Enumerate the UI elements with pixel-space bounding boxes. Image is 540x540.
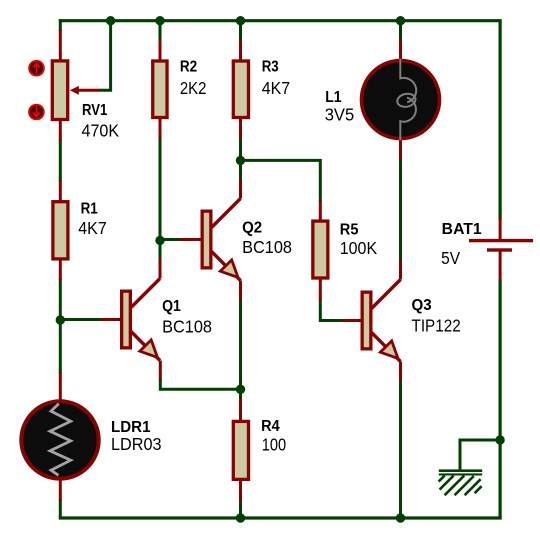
wire Q2 emitter down to emitter node	[239, 299, 242, 391]
svg-text:470K: 470K	[82, 121, 120, 141]
resistor R5	[313, 200, 328, 301]
junction R3 bottom node	[236, 156, 245, 165]
potentiometer RV1	[52, 30, 100, 142]
svg-text:Q3: Q3	[412, 297, 432, 314]
wire R1 bottom through node to LDR1 top	[59, 279, 62, 374]
wire R2 bottom to Q2 base node	[159, 138, 162, 242]
svg-text:R4: R4	[261, 418, 280, 435]
svg-text:Q1: Q1	[162, 298, 181, 315]
wire RV1 wiper to top rail	[100, 19, 111, 90]
wire Q3 emitter to bottom rail	[399, 380, 402, 520]
svg-text:Q2: Q2	[242, 219, 262, 236]
LDR LDR1	[21, 372, 98, 501]
transistor Q2	[180, 179, 241, 301]
wire R5 bottom to Q3 base	[320, 300, 344, 321]
junction top rail at wiper	[106, 16, 115, 25]
svg-text:R3: R3	[262, 59, 279, 76]
wire L1 bottom to Q3 collector	[399, 159, 402, 262]
svg-text:RV1: RV1	[82, 102, 108, 119]
wire R4 bottom to bottom rail	[239, 501, 242, 520]
svg-text:R5: R5	[340, 221, 359, 238]
svg-text:BAT1: BAT1	[442, 221, 482, 238]
wire node to Q1 collector pin	[159, 240, 162, 260]
junction bottom rail at Q3	[396, 513, 405, 522]
junction top rail at R2	[155, 16, 164, 25]
wire Q1 emitter rail to emitter node	[160, 379, 240, 389]
junction Q1 base node	[56, 315, 65, 324]
lamp L1	[362, 39, 440, 161]
wire R3 bottom to collector node	[239, 138, 242, 162]
svg-text:R1: R1	[81, 200, 99, 217]
svg-text:4K7: 4K7	[262, 78, 290, 98]
resistor R2	[153, 40, 167, 139]
junction emitter node	[236, 385, 245, 394]
svg-text:L1: L1	[325, 89, 342, 106]
svg-text:TIP122: TIP122	[412, 316, 461, 336]
wire R3 top stub	[239, 19, 242, 41]
svg-text:BC108: BC108	[162, 317, 212, 337]
wire Q2 base wire from node	[159, 238, 181, 241]
svg-text:LDR03: LDR03	[111, 434, 162, 454]
svg-text:3V5: 3V5	[325, 105, 355, 125]
wire LDR1 bottom to bottom rail	[59, 499, 62, 520]
battery BAT1	[469, 218, 533, 281]
RV1 down adjust button	[29, 105, 44, 120]
wire collector node across to R5 top	[239, 160, 320, 201]
resistor R1	[53, 180, 68, 281]
resistor R3	[233, 40, 248, 139]
wire bottom ground rail with right riser to battery	[59, 279, 500, 518]
junction right rail at ground	[495, 435, 504, 444]
junction top rail at R3	[236, 16, 245, 25]
wire top rail stub to RV1 top pin	[59, 19, 62, 31]
transistor Q3	[343, 260, 401, 382]
wire top power rail with right drop to battery	[59, 21, 500, 220]
RV1 up adjust button	[29, 61, 44, 76]
svg-text:100K: 100K	[340, 238, 378, 258]
resistor R4	[233, 398, 248, 503]
svg-text:4K7: 4K7	[78, 218, 106, 238]
svg-text:100: 100	[262, 434, 287, 454]
junction Q2 base node	[155, 236, 164, 245]
junction bottom rail at R4	[236, 513, 245, 522]
transistor Q1	[100, 259, 160, 381]
wire R2 top stub	[159, 19, 162, 41]
wire L1 top stub	[399, 19, 402, 40]
svg-text:5V: 5V	[441, 248, 460, 268]
wire Q1 base to left node	[59, 318, 101, 321]
svg-text:R2: R2	[180, 59, 197, 76]
svg-text:2K2: 2K2	[180, 78, 207, 98]
wire emitter node to R4 top	[239, 388, 242, 401]
wire ground tap from right rail	[460, 440, 500, 470]
junction top rail at L1	[396, 16, 405, 25]
svg-text:BC108: BC108	[242, 237, 292, 257]
wire RV1 bottom to R1 top	[59, 140, 62, 182]
ground symbol	[439, 469, 483, 495]
wire collector node to Q2 collector pin	[239, 160, 242, 180]
